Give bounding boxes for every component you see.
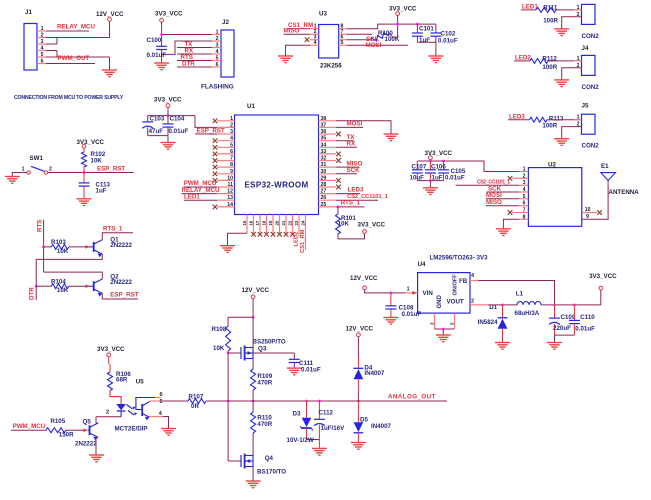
svg-text:4: 4 (230, 136, 233, 142)
svg-text:47uF: 47uF (149, 128, 164, 135)
svg-text:C103: C103 (150, 116, 165, 123)
svg-text:1: 1 (41, 26, 44, 32)
svg-text:RELAY_MCU: RELAY_MCU (57, 23, 95, 30)
svg-text:C104: C104 (170, 116, 185, 123)
svg-text:4: 4 (471, 273, 474, 279)
svg-text:U1: U1 (247, 103, 255, 110)
svg-text:ESP_RST: ESP_RST (197, 127, 225, 134)
svg-text:100K: 100K (385, 36, 400, 43)
svg-text:9: 9 (230, 169, 233, 175)
svg-text:RTS_1: RTS_1 (341, 199, 361, 206)
svg-text:R103: R103 (51, 239, 66, 246)
svg-text:6: 6 (216, 62, 219, 68)
svg-text:3V3_VCC: 3V3_VCC (389, 6, 417, 13)
svg-text:10K: 10K (57, 287, 69, 294)
svg-text:10K: 10K (91, 158, 103, 165)
svg-text:5: 5 (216, 56, 219, 62)
svg-text:15: 15 (242, 220, 247, 225)
svg-text:34: 34 (321, 142, 327, 148)
svg-text:C106: C106 (431, 163, 446, 170)
svg-text:IN5824: IN5824 (478, 319, 499, 326)
svg-text:150R: 150R (59, 432, 74, 439)
svg-text:0.01uF: 0.01uF (169, 128, 189, 135)
svg-text:E1: E1 (601, 163, 609, 170)
svg-text:3V3_VCC: 3V3_VCC (425, 150, 453, 157)
svg-text:28: 28 (321, 182, 327, 188)
svg-text:RTS: RTS (37, 220, 44, 232)
svg-text:3V3_VCC: 3V3_VCC (77, 139, 105, 146)
svg-text:LED3: LED3 (509, 114, 525, 121)
svg-text:2N2222: 2N2222 (110, 242, 132, 249)
svg-text:0.01uF: 0.01uF (445, 175, 465, 182)
svg-text:0.01uF: 0.01uF (575, 326, 595, 333)
svg-text:CS1_RM: CS1_RM (300, 229, 306, 253)
svg-text:PWM_OUT: PWM_OUT (58, 55, 90, 62)
svg-text:30: 30 (321, 169, 327, 175)
svg-text:ON/OFF: ON/OFF (453, 274, 459, 296)
svg-text:ANTENNA: ANTENNA (609, 189, 640, 196)
svg-text:J2: J2 (222, 19, 229, 26)
svg-text:1uF: 1uF (419, 37, 430, 44)
svg-text:13: 13 (227, 195, 233, 201)
svg-text:0.01uF: 0.01uF (147, 52, 167, 59)
svg-text:16: 16 (249, 220, 254, 225)
svg-text:L1: L1 (516, 291, 524, 298)
svg-text:SW1: SW1 (30, 155, 44, 162)
svg-text:LM2596/TO263- 3V3: LM2596/TO263- 3V3 (430, 255, 489, 262)
svg-text:C101: C101 (419, 26, 434, 33)
svg-text:20: 20 (275, 220, 280, 225)
svg-text:C102: C102 (441, 31, 456, 38)
svg-text:100R: 100R (543, 17, 558, 24)
svg-text:100R: 100R (542, 64, 557, 71)
svg-text:5: 5 (160, 399, 163, 405)
svg-text:R105: R105 (50, 418, 65, 425)
svg-text:1: 1 (216, 30, 219, 36)
svg-text:DTR: DTR (182, 61, 195, 68)
svg-text:GND: GND (437, 295, 443, 309)
svg-text:SCK: SCK (347, 167, 361, 174)
svg-text:12V_VCC: 12V_VCC (346, 325, 374, 332)
svg-text:470R: 470R (257, 421, 272, 428)
svg-text:CON2: CON2 (582, 33, 600, 40)
svg-text:RTS_1: RTS_1 (103, 225, 123, 232)
svg-text:19: 19 (268, 220, 273, 225)
svg-text:1: 1 (22, 167, 25, 173)
svg-text:2: 2 (106, 410, 109, 416)
svg-text:MOSI: MOSI (347, 121, 363, 128)
svg-text:U4: U4 (418, 261, 426, 268)
svg-text:C110: C110 (580, 314, 595, 321)
svg-text:Q5: Q5 (83, 419, 92, 426)
svg-text:CONNECTION FROM MCU TO POWER S: CONNECTION FROM MCU TO POWER SUPPLY (14, 95, 124, 101)
svg-text:R107: R107 (189, 393, 204, 400)
svg-text:U5: U5 (136, 379, 144, 386)
svg-text:12V_VCC: 12V_VCC (242, 287, 270, 294)
svg-text:R111: R111 (543, 4, 558, 11)
svg-text:22: 22 (288, 220, 293, 225)
svg-text:J4: J4 (582, 45, 589, 52)
svg-text:MCT2E/DIP: MCT2E/DIP (115, 425, 148, 432)
svg-text:2: 2 (49, 167, 52, 173)
svg-text:ANALOG_OUT: ANALOG_OUT (388, 394, 436, 401)
svg-text:470R: 470R (257, 380, 272, 387)
svg-text:68uH/3A: 68uH/3A (515, 310, 540, 317)
svg-text:31: 31 (321, 162, 327, 168)
svg-text:3: 3 (230, 129, 233, 135)
svg-text:5: 5 (230, 142, 233, 148)
svg-text:2: 2 (216, 36, 219, 42)
svg-text:10K: 10K (338, 220, 350, 227)
svg-text:2: 2 (230, 122, 233, 128)
svg-text:1uF: 1uF (432, 174, 443, 181)
svg-text:PWM_MCU: PWM_MCU (13, 423, 46, 430)
svg-text:IN4007: IN4007 (364, 370, 385, 377)
svg-text:24: 24 (301, 220, 306, 225)
svg-text:R108: R108 (212, 326, 227, 333)
svg-text:R104: R104 (51, 278, 66, 285)
svg-text:ESP32-WROOM: ESP32-WROOM (244, 181, 308, 190)
svg-text:CON2: CON2 (582, 84, 600, 91)
svg-text:12: 12 (227, 189, 233, 195)
svg-text:2N2222: 2N2222 (75, 440, 97, 447)
svg-text:35: 35 (321, 136, 327, 142)
svg-text:8: 8 (230, 162, 233, 168)
svg-text:LED2: LED2 (294, 232, 300, 247)
svg-text:1uF/16V: 1uF/16V (321, 425, 346, 432)
svg-text:VOUT: VOUT (447, 299, 464, 306)
svg-text:36: 36 (321, 129, 327, 135)
svg-text:27: 27 (321, 189, 327, 195)
svg-text:LED1: LED1 (184, 193, 200, 200)
svg-text:C100: C100 (147, 37, 162, 44)
svg-text:6: 6 (230, 149, 233, 155)
svg-text:33: 33 (321, 149, 327, 155)
svg-text:32: 32 (321, 156, 327, 162)
svg-text:10uF: 10uF (410, 174, 425, 181)
svg-text:DTR: DTR (29, 287, 36, 300)
svg-text:5: 5 (41, 52, 44, 58)
svg-text:VIN: VIN (423, 290, 434, 297)
svg-text:4: 4 (523, 187, 526, 193)
svg-text:18: 18 (262, 220, 267, 225)
svg-text:6: 6 (523, 201, 526, 207)
svg-text:2: 2 (523, 173, 526, 179)
svg-text:Q4: Q4 (265, 455, 274, 462)
svg-text:U3: U3 (319, 11, 327, 18)
svg-text:5: 5 (523, 194, 526, 200)
svg-text:25: 25 (321, 202, 327, 208)
svg-text:6: 6 (41, 59, 44, 65)
svg-text:ESP_RST: ESP_RST (97, 165, 125, 172)
svg-text:4: 4 (314, 40, 317, 46)
svg-text:7: 7 (523, 208, 526, 214)
svg-text:9: 9 (586, 214, 589, 220)
svg-text:1: 1 (523, 167, 526, 173)
svg-text:1: 1 (230, 116, 233, 122)
svg-text:2N2222: 2N2222 (110, 279, 132, 286)
svg-text:RX: RX (347, 141, 356, 148)
svg-text:1: 1 (407, 286, 410, 292)
svg-text:3V3_VCC: 3V3_VCC (589, 273, 617, 280)
svg-text:2: 2 (471, 298, 474, 304)
svg-text:FLASHING: FLASHING (201, 84, 234, 91)
svg-text:Q3: Q3 (258, 346, 267, 353)
svg-text:J1: J1 (25, 9, 32, 16)
svg-text:10V-1/2W: 10V-1/2W (287, 437, 314, 444)
svg-text:J5: J5 (582, 102, 589, 109)
svg-text:ESP_RST: ESP_RST (110, 292, 138, 299)
svg-text:10K: 10K (57, 248, 69, 255)
svg-text:5: 5 (450, 322, 455, 325)
svg-text:0.01uF: 0.01uF (402, 311, 422, 318)
svg-text:3V3_VCC: 3V3_VCC (154, 97, 182, 104)
svg-text:17: 17 (255, 220, 260, 225)
svg-text:LED2: LED2 (515, 55, 531, 62)
svg-text:4: 4 (216, 49, 219, 55)
svg-text:5: 5 (341, 40, 344, 46)
svg-text:23: 23 (294, 220, 299, 225)
svg-text:MISO: MISO (284, 28, 300, 35)
svg-text:3: 3 (523, 180, 526, 186)
svg-text:1uF: 1uF (96, 188, 107, 195)
svg-text:3V3_VCC: 3V3_VCC (155, 11, 183, 18)
svg-text:23K256: 23K256 (320, 63, 342, 70)
svg-text:7: 7 (230, 156, 233, 162)
svg-text:68R: 68R (116, 377, 128, 384)
svg-text:10: 10 (227, 175, 233, 181)
svg-text:6: 6 (160, 392, 163, 398)
svg-text:CON2: CON2 (582, 143, 600, 150)
svg-text:3: 3 (41, 39, 44, 45)
svg-text:2: 2 (41, 33, 44, 39)
svg-text:10K: 10K (213, 345, 225, 352)
svg-text:D5: D5 (360, 417, 368, 424)
svg-text:C107: C107 (412, 163, 427, 170)
svg-text:26: 26 (321, 195, 327, 201)
svg-text:FB: FB (459, 278, 468, 285)
svg-text:3V3_VCC: 3V3_VCC (358, 222, 386, 229)
svg-text:21: 21 (281, 220, 286, 225)
svg-text:MISO: MISO (486, 199, 502, 206)
svg-text:3: 3 (216, 43, 219, 49)
svg-text:100R: 100R (542, 122, 557, 129)
svg-text:C112: C112 (319, 410, 334, 417)
svg-text:MOSI: MOSI (366, 42, 382, 49)
svg-text:29: 29 (321, 175, 327, 181)
svg-text:220uF: 220uF (553, 325, 571, 332)
svg-text:10: 10 (585, 207, 591, 213)
svg-text:3: 3 (430, 322, 435, 325)
svg-text:38: 38 (321, 116, 327, 122)
svg-text:0.01uF: 0.01uF (438, 38, 458, 45)
svg-text:14: 14 (227, 202, 233, 208)
svg-text:D3: D3 (293, 411, 301, 418)
svg-text:4: 4 (41, 46, 44, 52)
svg-text:3V3_VCC: 3V3_VCC (97, 346, 125, 353)
svg-text:IN4007: IN4007 (371, 423, 392, 430)
svg-text:12V_VCC: 12V_VCC (96, 11, 124, 18)
svg-text:8: 8 (523, 214, 526, 220)
svg-text:LED3: LED3 (348, 186, 364, 193)
svg-text:12V_VCC: 12V_VCC (350, 275, 378, 282)
svg-text:0.01uF: 0.01uF (301, 367, 321, 374)
svg-text:0R: 0R (191, 403, 199, 410)
svg-text:37: 37 (321, 122, 327, 128)
svg-text:BS170/TO: BS170/TO (257, 468, 286, 475)
svg-text:11: 11 (228, 182, 234, 188)
